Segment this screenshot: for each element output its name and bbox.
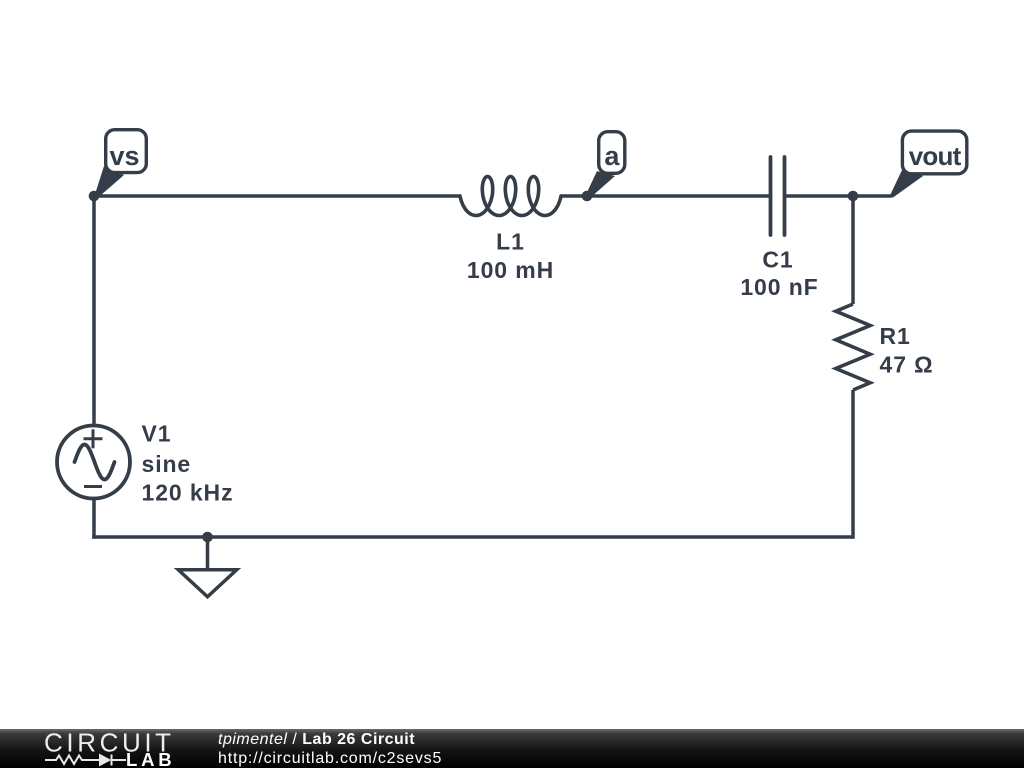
svg-text:V1: V1	[142, 421, 172, 447]
junction node a	[582, 191, 593, 202]
svg-text:47 Ω: 47 Ω	[880, 352, 934, 378]
svg-text:120 kHz: 120 kHz	[142, 480, 234, 506]
capacitor C1 plates	[771, 157, 785, 235]
junction node at ground	[202, 532, 213, 543]
svg-text:http://circuitlab.com/c2sevs5: http://circuitlab.com/c2sevs5	[218, 750, 442, 767]
V1 sine symbol	[75, 445, 115, 480]
junction node at vs	[89, 191, 100, 202]
wire: V1 bottom to bottom rail	[92, 499, 96, 539]
ground symbol	[178, 537, 236, 597]
wire: capacitor right plate to vout tail	[784, 194, 891, 198]
svg-text:vout: vout	[909, 141, 962, 171]
node label tail a	[586, 171, 615, 198]
inductor L1 coil	[460, 177, 561, 216]
node label box vs	[106, 130, 147, 173]
svg-text:LAB: LAB	[126, 749, 175, 768]
logo resistor-diode glyph	[45, 755, 126, 766]
wire bottom rail	[92, 535, 853, 539]
resistor R1 zigzag	[836, 304, 870, 390]
svg-text:C1: C1	[762, 247, 793, 273]
node label box a	[599, 132, 625, 174]
node label tail vs	[94, 166, 124, 199]
svg-text:L1: L1	[496, 229, 525, 255]
svg-text:a: a	[604, 141, 620, 171]
wire: resistor bottom to bottom rail	[851, 390, 855, 539]
svg-text:100 nF: 100 nF	[740, 274, 818, 300]
wire top: vs node to inductor	[94, 194, 460, 198]
svg-text:vs: vs	[109, 141, 139, 171]
logo diode triangle	[99, 754, 111, 767]
svg-text:sine: sine	[142, 451, 192, 477]
node label tail vout	[889, 168, 923, 198]
svg-text:100 mH: 100 mH	[467, 257, 554, 283]
wire right vertical: node to resistor top	[851, 196, 855, 304]
V1 minus sign	[84, 485, 102, 488]
svg-text:R1: R1	[880, 323, 911, 349]
wire: inductor to capacitor left plate	[561, 194, 770, 198]
V1 plus sign	[84, 429, 103, 448]
node label box vout	[902, 131, 966, 174]
svg-text:tpimentel / Lab 26 Circuit: tpimentel / Lab 26 Circuit	[218, 731, 415, 748]
voltage source V1 circle	[57, 426, 130, 499]
wire left vertical: vs node down to V1 top	[92, 196, 96, 424]
junction node at vout branch	[848, 191, 859, 202]
